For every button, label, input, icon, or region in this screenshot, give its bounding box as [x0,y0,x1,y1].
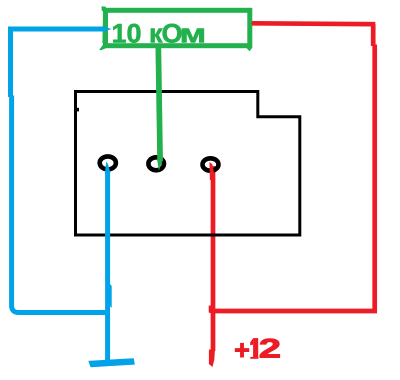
svg-text:2: 2 [259,334,281,364]
svg-text:м: м [179,18,206,48]
svg-text:+: + [234,335,250,365]
